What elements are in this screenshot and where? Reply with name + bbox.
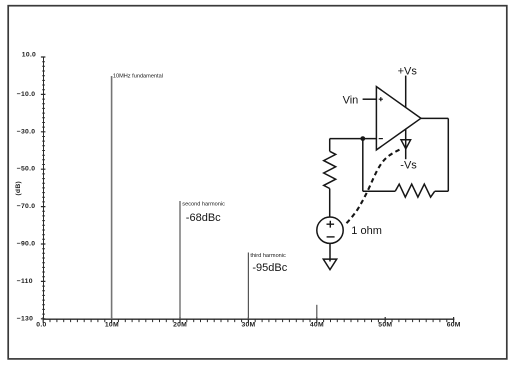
wire Vin to + input [363,98,377,100]
svg-text:1 ohm: 1 ohm [351,225,382,237]
svg-text:-68dBc: -68dBc [186,212,221,224]
x axis major ticks [43,317,453,323]
spectrum spike: fourth harmonic 40M [316,305,318,319]
wire source to ground [329,243,331,261]
-Vs arrow [401,140,411,149]
y axis line [43,57,45,319]
svg-text:10.0: 10.0 [22,52,36,59]
wire resistor R1 top [329,139,331,152]
svg-text:second harmonic: second harmonic [182,201,225,207]
source - marker [327,236,335,238]
svg-text:+Vs: +Vs [398,66,418,78]
source + marker [327,221,335,228]
svg-text:−10.0: −10.0 [17,91,35,98]
wire feedback bottom [363,190,395,192]
svg-text:10M: 10M [105,322,119,329]
op-amp - input pin marker [379,138,383,140]
svg-text:20M: 20M [173,322,187,329]
svg-text:Vin: Vin [343,95,359,107]
svg-text:0.0: 0.0 [36,322,46,329]
op-amp U1 [376,87,421,150]
svg-text:10MHz fundamental: 10MHz fundamental [113,74,163,80]
svg-text:−50.0: −50.0 [17,166,35,173]
y axis major ticks [41,57,46,319]
svg-text:60M: 60M [447,322,461,329]
svg-text:-95dBc: -95dBc [252,262,287,274]
svg-text:-Vs: -Vs [400,160,417,172]
svg-text:−130: −130 [17,315,33,322]
svg-text:−110: −110 [17,278,33,285]
svg-text:−30.0: −30.0 [17,128,35,135]
resistor R2 feedback [395,184,435,197]
x axis minor ticks [50,319,447,322]
svg-text:−70.0: −70.0 [17,203,35,210]
x axis line [43,318,454,320]
resistor R1 [324,151,336,188]
svg-text:50M: 50M [378,322,392,329]
spectrum spike: second harmonic 20M [179,201,181,319]
wire R1 to source [329,189,331,218]
op-amp + input pin marker [379,97,383,101]
voltage source V1 [317,217,343,243]
svg-text:(dB): (dB) [15,181,22,196]
wire +Vs supply [405,76,407,108]
svg-text:40M: 40M [310,322,324,329]
ground [323,259,336,270]
spectrum spike: third harmonic 30M [247,253,249,320]
wire inverting node vertical [362,139,364,192]
svg-text:−90.0: −90.0 [17,241,35,248]
y axis minor ticks [42,62,45,314]
dashed pointer from 1 ohm label to -Vs [347,148,403,223]
node at inverting input junction [360,136,365,141]
wire output [421,118,448,191]
svg-text:third harmonic: third harmonic [250,253,286,259]
wire inverting node horizontal [330,138,377,140]
wire -Vs supply [405,129,407,159]
spectrum spike: 10MHz fundamental [111,76,113,319]
svg-text:30M: 30M [242,322,256,329]
